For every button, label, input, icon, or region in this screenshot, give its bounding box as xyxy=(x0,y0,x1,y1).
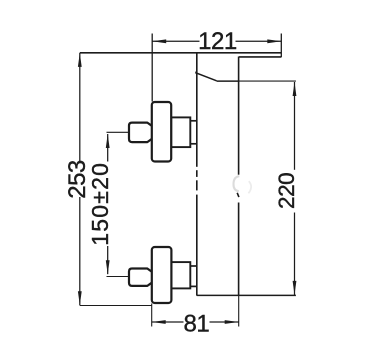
svg-text:150±20: 150±20 xyxy=(87,162,113,246)
bottom escutcheon flange xyxy=(152,247,172,303)
220 top extension xyxy=(239,80,296,82)
dimension 253 line xyxy=(79,53,81,305)
svg-text:81: 81 xyxy=(184,310,210,337)
funnel diagonal xyxy=(196,71,217,81)
body left edge (with watermark gaps) xyxy=(196,53,198,166)
shelf top edge xyxy=(80,52,281,54)
bottom inlet neck lines xyxy=(190,265,197,267)
dimension 220 arrows xyxy=(293,82,297,96)
body right edge (with watermark gap and remnant dash) xyxy=(238,57,240,175)
dimension 150±20 arrows xyxy=(106,134,110,148)
81 extensions xyxy=(151,304,153,327)
bottom hex nut xyxy=(129,269,152,286)
top escutcheon flange xyxy=(152,102,171,162)
121 left extension down to escutcheon xyxy=(151,34,153,102)
body bottom + 220 bottom extension xyxy=(197,294,296,296)
svg-text:220: 220 xyxy=(274,173,299,209)
150±20 connectors xyxy=(107,131,130,133)
bottom inlet pipe xyxy=(171,262,190,288)
dimension 121 line xyxy=(152,40,281,42)
top inlet pipe xyxy=(171,117,190,147)
dimension 81 arrows xyxy=(152,320,166,324)
dimension 220 line xyxy=(294,82,296,295)
dimension 150±20 line xyxy=(107,134,109,274)
watermark faint letter fragments xyxy=(233,176,239,191)
shelf right cap + 121 right extension xyxy=(280,34,282,58)
dimension 81 line xyxy=(152,321,239,323)
shelf bottom edge xyxy=(239,56,281,58)
top hex nut xyxy=(129,123,152,143)
svg-text:121: 121 xyxy=(198,28,237,55)
dimension 121 arrows xyxy=(152,39,166,43)
dimension 253 arrows xyxy=(78,53,82,67)
funnel bottom xyxy=(217,80,239,82)
top inlet neck lines xyxy=(190,120,197,122)
253 bottom extension xyxy=(80,305,152,307)
